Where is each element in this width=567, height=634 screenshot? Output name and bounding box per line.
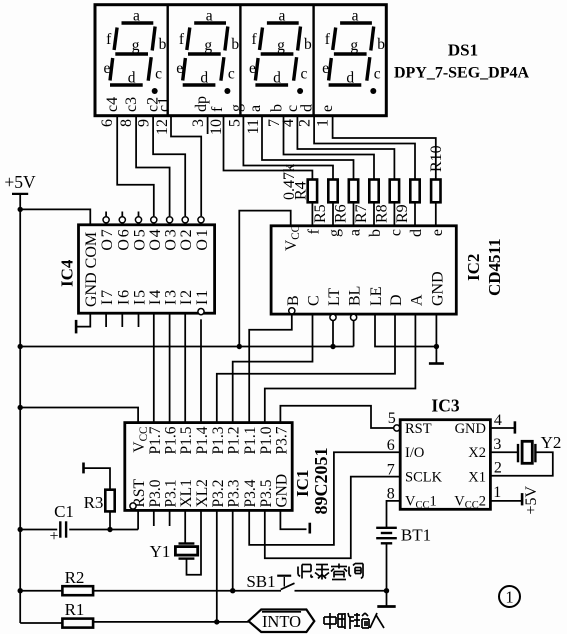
svg-text:BT1: BT1 (401, 526, 431, 545)
display digit separators (166, 5, 168, 116)
svg-text:dp: dp (193, 96, 210, 112)
wire LT to +5V (332, 321, 334, 347)
resistor R2 (62, 586, 93, 595)
svg-text:+: + (49, 528, 58, 545)
svg-text:P3.0: P3.0 (147, 479, 164, 507)
svg-text:e: e (176, 60, 183, 77)
svg-text:GND: GND (455, 421, 486, 437)
battery BT1 (376, 527, 397, 529)
wire c2 to O2 (153, 116, 185, 216)
svg-text:b: b (159, 36, 167, 53)
svg-text:g: g (204, 37, 212, 54)
wire RST down (137, 510, 139, 529)
ground R3 (82, 463, 85, 474)
svg-text:1: 1 (505, 588, 513, 607)
wire IC2 GND down (435, 314, 437, 363)
IC1 stubs P3.0 P3.1 (153, 510, 155, 526)
svg-text:c1: c1 (155, 97, 172, 112)
capacitor C1 (59, 521, 61, 537)
svg-text:a: a (278, 8, 285, 25)
resistor R8 (390, 180, 399, 203)
svg-text:c: c (228, 66, 235, 83)
svg-text:a: a (133, 8, 140, 25)
svg-text:e: e (319, 105, 336, 112)
svg-text:c: c (301, 66, 308, 83)
wire IC2 VCC to +5V net (239, 211, 290, 347)
wire I2 to P1.5 (184, 313, 186, 422)
svg-text:d: d (408, 229, 425, 237)
svg-text:P3.4: P3.4 (242, 479, 259, 507)
svg-text:3: 3 (493, 436, 501, 453)
wire XL1 to crystal (184, 510, 186, 543)
svg-text:IC3: IC3 (431, 396, 459, 416)
wire +5V to IC1 VCC (20, 408, 138, 423)
ground IC1 (308, 523, 311, 534)
svg-text:R10: R10 (428, 145, 445, 172)
svg-text:a: a (347, 229, 364, 236)
svg-text:b: b (377, 36, 385, 53)
svg-text:R9: R9 (394, 204, 411, 223)
svg-text:P1.5: P1.5 (178, 426, 195, 454)
wire C1 R3 RST line (20, 529, 57, 531)
ground IC2 (429, 362, 444, 365)
svg-text:f: f (252, 31, 258, 48)
IC1 RST bubble (130, 503, 136, 509)
wire a to R6 (262, 116, 354, 180)
svg-text:9: 9 (136, 119, 153, 127)
svg-text:4: 4 (280, 119, 297, 127)
svg-text:X2: X2 (468, 445, 486, 461)
IC4 unconnected stubs O7 O6 O5 (105, 212, 107, 217)
svg-text:R8: R8 (373, 204, 390, 223)
IC1 box (125, 423, 292, 511)
svg-text:A: A (408, 294, 425, 306)
svg-text:+5V: +5V (523, 485, 540, 514)
wire R3 top to ground (84, 468, 111, 490)
wire SB1 to battery node (295, 590, 387, 592)
display DS1 outer box (95, 5, 386, 116)
svg-text:c: c (387, 229, 404, 236)
wire R1 row (20, 622, 62, 624)
svg-text:R6: R6 (333, 204, 350, 223)
text shu (354, 613, 369, 628)
svg-text:C1: C1 (54, 502, 74, 521)
wire VCC1 to battery (387, 501, 401, 528)
svg-text:8: 8 (118, 119, 135, 127)
svg-text:I6: I6 (115, 288, 132, 305)
svg-text:g: g (132, 37, 140, 54)
svg-text:b: b (269, 104, 286, 112)
wire f to R4 (224, 116, 313, 180)
text ji (298, 565, 313, 579)
svg-text:c3: c3 (123, 97, 140, 112)
IC2 pin BL bubble (351, 314, 357, 320)
svg-text:O7: O7 (99, 228, 116, 251)
ground IC3 (514, 421, 517, 433)
crystal Y1 (179, 542, 195, 544)
text cha (331, 564, 347, 580)
svg-text:SB1: SB1 (246, 572, 275, 591)
svg-text:DPY_7-SEG_DP4A: DPY_7-SEG_DP4A (394, 65, 530, 82)
wire C to IC1 P1.2 (233, 314, 313, 423)
wire c to R8 (297, 116, 394, 180)
svg-text:e: e (322, 60, 329, 77)
wire R9 to CD4511 (414, 202, 416, 226)
wire b to R7 (284, 116, 375, 180)
svg-text:P1.4: P1.4 (194, 426, 211, 454)
wire Y2 to X1 (490, 452, 552, 475)
svg-text:SCLK: SCLK (405, 470, 443, 486)
text lu (315, 565, 329, 580)
svg-text:5: 5 (388, 410, 396, 427)
wire I4 to P1.7 (153, 313, 155, 422)
wire X2 to Y2 (490, 451, 518, 453)
svg-text:I7: I7 (99, 288, 116, 305)
wire R2 row (20, 590, 62, 592)
resistor R7 (369, 180, 378, 203)
wire P3.5 to IC3 SCLK (265, 477, 400, 559)
7-seg digit 4 (322, 8, 385, 95)
svg-text:P1.2: P1.2 (226, 427, 243, 455)
svg-text:c: c (155, 66, 162, 83)
wire R8 to CD4511 (393, 202, 395, 226)
svg-text:4: 4 (494, 412, 502, 429)
wire BL to +5V (353, 321, 355, 347)
svg-text:10: 10 (208, 119, 225, 135)
svg-text:d: d (299, 104, 316, 112)
switch SB1 (281, 583, 295, 589)
IC4 pin I1 bubble (198, 309, 204, 315)
svg-text:GND: GND (429, 271, 446, 306)
svg-text:Y2: Y2 (541, 433, 562, 452)
svg-text:C: C (306, 295, 323, 306)
svg-text:12: 12 (154, 119, 171, 135)
svg-text:7: 7 (387, 462, 395, 479)
svg-text:IC1: IC1 (293, 470, 312, 497)
svg-text:IC4: IC4 (58, 259, 77, 287)
wire P3.7 to IC3 RST (280, 406, 393, 428)
wire c4 to O4 (117, 116, 154, 216)
IC2 pin B bubble (289, 308, 295, 314)
text duan (338, 613, 354, 629)
svg-text:P3.3: P3.3 (226, 479, 243, 507)
resistor R10 (431, 180, 440, 203)
circled number 1 (499, 586, 520, 607)
svg-text:I1: I1 (194, 288, 211, 305)
wire R5 to CD4511 (332, 202, 334, 226)
svg-text:BL: BL (347, 286, 364, 306)
wire A to IC1 P1.0 (265, 314, 416, 423)
svg-text:5: 5 (227, 119, 244, 127)
svg-text:Y1: Y1 (150, 542, 171, 561)
IC4 stubs I7 I6 I5 (105, 313, 107, 327)
svg-text:I4: I4 (147, 288, 164, 305)
svg-text:B: B (285, 295, 302, 306)
wire R3 bottom (109, 511, 111, 529)
svg-text:X1: X1 (468, 470, 486, 486)
text xun (349, 564, 363, 579)
svg-text:P1.7: P1.7 (147, 426, 164, 454)
svg-text:P1.0: P1.0 (258, 426, 275, 454)
svg-text:XL1: XL1 (178, 479, 195, 507)
resistor R6 (349, 180, 358, 203)
svg-text:d: d (273, 70, 281, 87)
IC4 GND stub and ground (76, 313, 90, 326)
resistor R5 (328, 180, 337, 203)
svg-text:CD4511: CD4511 (485, 238, 504, 296)
svg-text:I/O: I/O (405, 445, 424, 461)
stub dp pin (207, 116, 209, 134)
svg-text:c4: c4 (104, 97, 121, 112)
svg-text:R5: R5 (312, 204, 329, 223)
svg-text:P1.3: P1.3 (210, 426, 227, 454)
svg-text:3: 3 (190, 119, 207, 127)
svg-text:6: 6 (99, 119, 116, 127)
svg-text:g: g (326, 229, 343, 237)
svg-text:R1: R1 (65, 600, 85, 619)
resistor R9 (410, 180, 419, 203)
wire c1 to O1 (171, 116, 201, 216)
svg-text:b: b (367, 229, 384, 237)
svg-text:O4: O4 (147, 228, 164, 251)
wire LE to GND (375, 314, 436, 346)
svg-text:f: f (305, 228, 322, 234)
ground battery (377, 605, 395, 608)
svg-text:RST: RST (405, 421, 432, 437)
svg-text:2: 2 (494, 460, 502, 477)
svg-text:I3: I3 (163, 288, 180, 305)
text ru (370, 613, 384, 628)
svg-text:a: a (206, 8, 213, 25)
svg-text:d: d (200, 70, 208, 87)
svg-text:IC2: IC2 (464, 254, 483, 281)
svg-text:f: f (106, 31, 112, 48)
wire IC1 GND to ground (280, 510, 306, 529)
resistor R1 (62, 619, 93, 628)
IC2 pin LT bubble (330, 314, 336, 320)
svg-text:2: 2 (297, 119, 314, 127)
svg-text:P1.1: P1.1 (242, 427, 259, 455)
IC3 box (400, 420, 490, 510)
IC3 RST bubble (394, 425, 400, 431)
+5V bar (12, 193, 28, 195)
resistor R4 (308, 180, 317, 203)
svg-text:+5V: +5V (4, 172, 36, 192)
crystal Y2 (517, 444, 519, 462)
wire R4 to CD4511 (311, 202, 313, 226)
7-seg digit 2 (176, 8, 239, 95)
svg-text:g: g (228, 104, 245, 112)
svg-text:1: 1 (315, 119, 332, 127)
svg-text:P3.1: P3.1 (163, 480, 180, 508)
INT0 flag (249, 610, 315, 633)
svg-text:LT: LT (326, 288, 343, 306)
svg-text:O3: O3 (163, 228, 180, 251)
svg-text:d: d (128, 70, 136, 87)
svg-text:1: 1 (493, 484, 501, 501)
svg-text:e: e (429, 229, 446, 236)
svg-text:R4: R4 (293, 181, 310, 200)
+5V horizontal line (20, 346, 353, 348)
svg-text:DS1: DS1 (448, 41, 478, 60)
svg-text:e: e (249, 60, 256, 77)
text zhong (324, 613, 336, 629)
wire D to IC1 P1.3 (217, 314, 395, 423)
svg-text:O6: O6 (115, 228, 132, 251)
IC4 box (79, 225, 215, 313)
svg-text:b: b (231, 36, 239, 53)
svg-text:R3: R3 (84, 493, 104, 512)
wire battery to ground node (386, 543, 388, 606)
wire R10 to CD4511 (435, 202, 437, 226)
svg-text:GND: GND (273, 474, 290, 508)
+5V rail vertical (19, 194, 21, 623)
wire e to R10 (333, 116, 436, 180)
svg-text:D: D (388, 294, 405, 306)
svg-text:P3.7: P3.7 (273, 426, 290, 454)
svg-text:g: g (277, 37, 285, 54)
wire IC3 GND to ground (490, 427, 515, 429)
svg-text:GND COM: GND COM (83, 232, 100, 307)
7-seg digit 3 (249, 8, 312, 95)
wire crystal to XL2 (187, 510, 202, 574)
svg-text:R7: R7 (353, 204, 370, 223)
svg-text:P3.5: P3.5 (258, 479, 275, 507)
svg-text:89C2051: 89C2051 (311, 448, 331, 515)
+5V bar IC3 (521, 493, 524, 505)
wire R7 to CD4511 (373, 202, 375, 226)
svg-text:XL2: XL2 (194, 479, 211, 507)
svg-text:LE: LE (368, 286, 385, 306)
svg-text:e: e (104, 60, 111, 77)
svg-text:a: a (247, 105, 264, 112)
wire d to R9 (314, 116, 415, 180)
wire VCC2 to +5V (490, 500, 522, 502)
svg-text:INTO: INTO (262, 612, 301, 631)
IC4 output pin bubbles O7..O1 (103, 217, 109, 223)
svg-text:c: c (374, 66, 381, 83)
svg-text:f: f (325, 31, 331, 48)
svg-text:O2: O2 (178, 228, 195, 251)
wire +5V to IC4 COM (20, 209, 90, 224)
svg-text:P1.6: P1.6 (163, 426, 180, 454)
svg-text:11: 11 (245, 119, 262, 134)
svg-text:a: a (352, 8, 359, 25)
svg-text:b: b (304, 36, 312, 53)
svg-text:d: d (346, 70, 354, 87)
wire P3.2 to INT0 line (216, 510, 218, 622)
svg-text:O1: O1 (194, 228, 211, 251)
svg-text:R2: R2 (65, 568, 85, 587)
svg-text:I2: I2 (178, 288, 195, 305)
wire P3.4 to IC3 I/O (249, 452, 400, 545)
wire g to R5 (243, 116, 333, 180)
wire R6 to CD4511 (353, 202, 355, 226)
IC2 box (271, 226, 456, 314)
svg-text:8: 8 (387, 486, 395, 503)
svg-text:g: g (350, 37, 358, 54)
wire I3 to P1.6 (169, 313, 171, 422)
svg-text:f: f (179, 31, 185, 48)
wire B to IC1 P1.1 (249, 314, 292, 423)
7-seg digit 1 (104, 8, 167, 95)
resistor R3 (105, 490, 114, 512)
svg-text:f: f (209, 106, 226, 112)
svg-text:P3.2: P3.2 (210, 480, 227, 508)
wire I1 to P1.4 (200, 319, 202, 422)
wire c3 to O3 (136, 116, 170, 216)
svg-text:6: 6 (387, 437, 395, 454)
wire P3.3 to SB1 line (232, 510, 234, 590)
